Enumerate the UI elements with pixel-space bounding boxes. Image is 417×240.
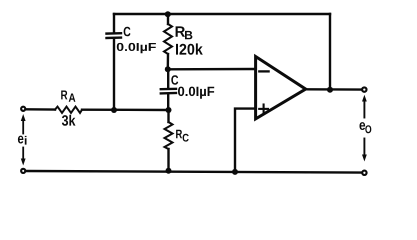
wire RB top lead bbox=[167, 14, 169, 24]
value 0.01uF (middle) bbox=[178, 87, 214, 99]
wire C2 lower lead bbox=[167, 94, 169, 110]
wire left capacitor branch upper bbox=[113, 14, 115, 33]
wire input to RA bbox=[26, 108, 55, 111]
output terminal bottom-right bbox=[362, 171, 366, 175]
e_i arrow bbox=[21, 114, 26, 166]
wire non-inverting input branch bbox=[235, 109, 256, 172]
label RB bbox=[176, 26, 193, 39]
node junction C2 / RC / RA wire bbox=[166, 107, 172, 113]
output terminal top-right bbox=[362, 87, 366, 91]
resistor RB bbox=[164, 24, 172, 54]
node junction left-cap / RA wire bbox=[111, 107, 117, 113]
wire op-amp output bbox=[306, 88, 361, 91]
wire feedback from top rail bbox=[329, 14, 331, 90]
node junction RC / bottom rail bbox=[166, 168, 172, 174]
op-amp U1 bbox=[256, 57, 306, 119]
input terminal top-left bbox=[21, 107, 25, 111]
label e_i bbox=[18, 136, 27, 145]
capacitor C (middle) plates bbox=[161, 89, 176, 94]
wire to inverting input bbox=[168, 68, 256, 71]
node junction output / feedback bbox=[327, 87, 333, 93]
value 0.01uF (left) bbox=[117, 43, 156, 53]
e_o arrow bbox=[362, 95, 367, 162]
label RC bbox=[176, 130, 189, 142]
value 120k bbox=[176, 43, 203, 54]
value 3k bbox=[62, 115, 76, 126]
capacitor C (left) plates bbox=[107, 33, 122, 38]
wire bottom rail bbox=[26, 171, 361, 173]
resistor RC bbox=[165, 122, 173, 149]
wire RA to node bbox=[82, 108, 169, 111]
wire RB bottom lead bbox=[167, 54, 170, 69]
label C (left) bbox=[124, 27, 131, 37]
label e_o bbox=[360, 122, 372, 133]
wire C2 upper lead bbox=[167, 69, 169, 88]
wire left capacitor branch lower bbox=[113, 39, 115, 111]
label C (middle) bbox=[171, 75, 178, 85]
label RA bbox=[61, 91, 75, 102]
input terminal bottom-left bbox=[21, 169, 25, 173]
node junction non-inverting branch / bottom rail bbox=[232, 169, 238, 175]
node junction top of RB bbox=[165, 11, 171, 17]
wire RC top lead bbox=[167, 110, 169, 122]
wire RC bottom lead bbox=[167, 149, 169, 171]
resistor RA bbox=[55, 107, 82, 113]
wire top rail bbox=[114, 13, 330, 15]
node junction RB / minus-input / C2 bbox=[165, 66, 171, 72]
